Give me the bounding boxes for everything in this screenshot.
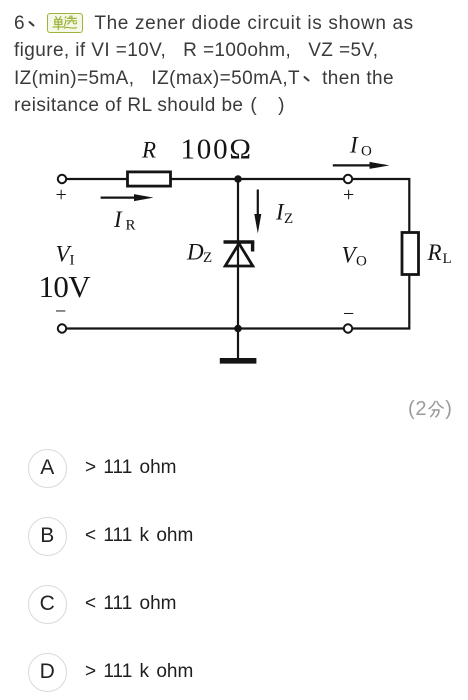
zener diode DZ cathode bent tab xyxy=(251,242,254,252)
svg-text:Z: Z xyxy=(284,211,293,227)
terminal input + (open circle) xyxy=(58,175,66,183)
wire bottom from left terminal to node B and output bottom terminal xyxy=(67,327,344,329)
svg-text:+: + xyxy=(343,184,354,206)
svg-text:I: I xyxy=(113,207,123,232)
svg-text:R: R xyxy=(126,218,136,234)
zener diode DZ anode triangle xyxy=(225,244,253,267)
svg-text:R: R xyxy=(427,240,442,265)
svg-text:O: O xyxy=(356,254,367,270)
svg-text:Z: Z xyxy=(203,250,212,266)
terminal output + (open circle) xyxy=(344,175,352,183)
label IO xyxy=(349,133,372,160)
label VI source voltage xyxy=(56,242,75,269)
label IR xyxy=(113,207,136,234)
svg-text:+: + xyxy=(56,184,67,206)
svg-text:100Ω: 100Ω xyxy=(181,134,253,166)
terminal output - (open circle) xyxy=(344,324,352,332)
ground stub wire xyxy=(237,329,239,359)
svg-text:D: D xyxy=(186,240,204,265)
label IZ xyxy=(275,200,293,228)
svg-text:10V: 10V xyxy=(39,269,92,304)
svg-text:R: R xyxy=(141,138,156,163)
label DZ xyxy=(186,240,212,267)
zener diode DZ cathode bar xyxy=(224,240,255,244)
svg-text:−: − xyxy=(343,303,354,325)
arrow IR current xyxy=(101,194,154,201)
svg-text:I: I xyxy=(70,253,75,269)
svg-text:I: I xyxy=(349,133,359,158)
ground bar xyxy=(220,358,257,364)
wire top-left from input terminal to resistor R xyxy=(67,178,128,180)
label RL xyxy=(427,240,452,267)
wire top-right from output terminal to right rail corner xyxy=(353,179,410,233)
arrow IZ current xyxy=(254,190,261,234)
arrow IO current xyxy=(333,162,390,169)
terminal input - (open circle) xyxy=(58,324,66,332)
node B junction dot bottom xyxy=(234,325,242,333)
wire zener branch vertical xyxy=(237,179,239,329)
resistor RL body xyxy=(402,233,419,275)
node A junction dot top xyxy=(234,175,242,183)
resistor R body xyxy=(128,172,171,186)
wire right rail below RL to bottom wire xyxy=(353,275,410,329)
svg-text:L: L xyxy=(443,251,452,267)
svg-text:O: O xyxy=(361,144,372,160)
wire top-middle from resistor R to node A and to output terminal xyxy=(171,178,344,180)
label VO output voltage xyxy=(342,243,368,270)
